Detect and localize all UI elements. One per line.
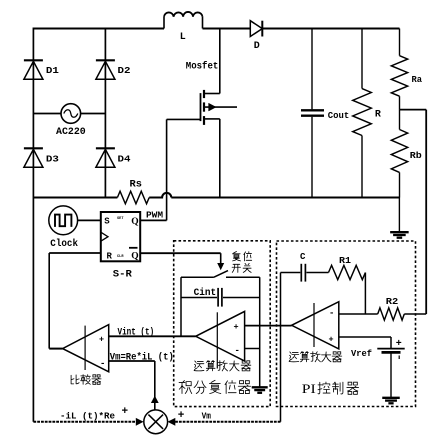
svg-text:+: + bbox=[396, 339, 402, 350]
wire: - input row bbox=[339, 313, 378, 315]
arrow up (multiplier to comparator) bbox=[151, 396, 159, 403]
label Vref bbox=[351, 348, 372, 359]
svg-text:Rs: Rs bbox=[130, 180, 143, 191]
label R1 bbox=[339, 255, 351, 266]
svg-text:D4: D4 bbox=[118, 153, 131, 164]
svg-text:Ra: Ra bbox=[412, 74, 423, 85]
svg-text:PWM: PWM bbox=[146, 210, 163, 221]
svg-text:Cint: Cint bbox=[194, 287, 217, 299]
capacitor C (PI feedback) bbox=[281, 264, 329, 282]
battery Vref bbox=[377, 339, 404, 359]
svg-text:S-R: S-R bbox=[113, 270, 132, 281]
ground (Vref) bbox=[382, 398, 400, 404]
wire: top rail left segment bbox=[33, 28, 164, 30]
svg-text:AC220: AC220 bbox=[56, 127, 86, 138]
label 积分复位器 bbox=[179, 380, 251, 393]
wire: Vm input bbox=[109, 361, 155, 410]
diode D1 bbox=[24, 60, 43, 79]
label + (right multiplier input) bbox=[178, 410, 185, 422]
ground (integrator) bbox=[252, 387, 268, 393]
dashed box: PI controller PI控制器 bbox=[277, 241, 416, 407]
wire: output ground stub bbox=[398, 198, 400, 232]
svg-text:-: - bbox=[100, 359, 105, 369]
capacitor Cint bbox=[181, 288, 260, 307]
op-amp comparator bbox=[63, 325, 109, 372]
label Vint(t) bbox=[118, 326, 155, 338]
svg-text:Clock: Clock bbox=[50, 238, 78, 250]
op-amp integrator bbox=[196, 311, 245, 368]
wire: feedback left drop (PI output node) bbox=[280, 273, 282, 422]
label -iL(t)*Re bbox=[60, 411, 115, 422]
latch U1 S-R box bbox=[101, 212, 140, 261]
label C bbox=[300, 252, 306, 262]
label comparator (比较器) bbox=[71, 375, 101, 385]
svg-text:Vm: Vm bbox=[202, 411, 212, 422]
svg-text:+: + bbox=[99, 335, 104, 345]
resistor R1 bbox=[329, 265, 366, 279]
svg-text:+: + bbox=[329, 335, 334, 345]
wire: feedback right rail to ground bbox=[259, 277, 261, 387]
reset switch bbox=[181, 271, 260, 278]
wire: left rail (full height) bbox=[32, 28, 34, 422]
svg-text:Mosfet: Mosfet bbox=[186, 61, 219, 73]
resistor Rb bbox=[391, 110, 407, 198]
wire: clock to S input bbox=[78, 219, 101, 221]
clock source bbox=[49, 206, 78, 235]
label 运算放大器 (integrator) bbox=[194, 361, 251, 371]
label D2 bbox=[118, 65, 131, 76]
svg-text:Cout: Cout bbox=[328, 110, 350, 121]
mosfet Q (power switch) bbox=[167, 29, 237, 198]
wire: Q to gate node PWM bbox=[140, 219, 166, 221]
svg-text:Vm=Re*iL (t): Vm=Re*iL (t) bbox=[110, 351, 174, 363]
label 复位 bbox=[232, 252, 251, 261]
svg-text:S: S bbox=[104, 217, 110, 227]
diode D4 bbox=[96, 148, 115, 167]
wire: feedback left rail bbox=[180, 277, 182, 336]
wire: comparator output bbox=[49, 348, 62, 350]
svg-text:R: R bbox=[107, 252, 113, 262]
label Rs bbox=[130, 180, 143, 191]
latch pin R bbox=[107, 252, 113, 262]
svg-text:-: - bbox=[329, 309, 334, 319]
label PWM bbox=[146, 210, 163, 221]
resistor Ra bbox=[391, 29, 407, 110]
resistor R2 bbox=[378, 308, 405, 320]
label + (left multiplier input) bbox=[122, 406, 129, 418]
label Clock bbox=[50, 238, 78, 250]
capacitor Cout bbox=[301, 29, 324, 198]
svg-text:Rb: Rb bbox=[410, 150, 422, 161]
wire: divider tap to feedback bbox=[400, 110, 427, 314]
svg-text:D3: D3 bbox=[46, 153, 59, 164]
svg-text:D1: D1 bbox=[46, 65, 59, 76]
wire: Qbar to reset switch bbox=[140, 253, 224, 270]
latch pin SET (tiny) bbox=[117, 217, 124, 221]
svg-text:R1: R1 bbox=[339, 255, 351, 266]
label 开关 bbox=[232, 263, 251, 272]
label Rb bbox=[410, 150, 422, 161]
wire: Vref to ground bbox=[390, 354, 392, 398]
diode D3 bbox=[24, 148, 43, 167]
wire: integrator - input bbox=[245, 348, 260, 350]
diode D2 bbox=[96, 60, 115, 79]
label Vm bbox=[202, 411, 212, 422]
dashed box: integrator 积分复位器 bbox=[174, 241, 271, 407]
svg-text:-iL (t)*Re: -iL (t)*Re bbox=[60, 411, 115, 422]
label Ra bbox=[412, 74, 423, 85]
wire: top rail mid segment (L to D) bbox=[203, 28, 251, 30]
label PI控制器 bbox=[302, 382, 359, 396]
label D4 bbox=[118, 153, 131, 164]
svg-text:SET: SET bbox=[117, 217, 124, 221]
AC source AC220 bbox=[61, 104, 81, 124]
label Cout bbox=[328, 110, 350, 121]
svg-text:Q: Q bbox=[131, 252, 138, 262]
svg-text:PI: PI bbox=[302, 382, 316, 396]
svg-text:Vref: Vref bbox=[351, 348, 372, 359]
label R2 bbox=[386, 296, 399, 307]
svg-text:D: D bbox=[254, 41, 260, 52]
label Mosfet bbox=[186, 61, 219, 73]
svg-text:Vint (t): Vint (t) bbox=[118, 326, 155, 338]
wire: gate to PWM node bbox=[166, 119, 168, 220]
label S-R bbox=[113, 270, 132, 281]
svg-text:Q: Q bbox=[131, 217, 138, 227]
label Cint bbox=[194, 287, 217, 299]
wire: PI output to integrator + input bbox=[245, 325, 292, 327]
latch pin Q bbox=[131, 217, 138, 227]
svg-text:+: + bbox=[178, 410, 185, 422]
resistor R (load) bbox=[353, 29, 372, 198]
label D1 bbox=[46, 65, 59, 76]
wire: AC row bbox=[33, 113, 105, 115]
label Vm=Re*iL(t) bbox=[110, 351, 174, 363]
svg-text:R2: R2 bbox=[386, 296, 399, 307]
ground (output) bbox=[390, 232, 409, 238]
latch clock triangle bbox=[101, 232, 108, 241]
inductor L bbox=[164, 12, 203, 29]
multiplier (X) bbox=[144, 410, 168, 434]
svg-text:CLR: CLR bbox=[117, 255, 124, 259]
wire: Vm to multiplier bbox=[168, 418, 281, 426]
label R bbox=[375, 110, 381, 121]
label D3 bbox=[46, 153, 59, 164]
svg-text:R: R bbox=[375, 110, 381, 121]
label D bbox=[254, 41, 260, 52]
latch pin CLR (tiny) bbox=[117, 255, 124, 259]
wire: bottom rail (rectifier to output ground) bbox=[33, 193, 399, 198]
wire: current sense to multiplier bbox=[33, 418, 143, 426]
svg-text:-: - bbox=[235, 346, 240, 356]
latch pin Qbar bbox=[129, 248, 139, 262]
wire: top rail right segment (D to Ra) bbox=[263, 28, 400, 30]
op-amp PI bbox=[292, 302, 339, 349]
wire: Vint input bbox=[109, 335, 196, 337]
wire: R1 to - input node bbox=[364, 273, 366, 315]
wire: R2 to divider tap wire bbox=[404, 313, 426, 315]
svg-text:D2: D2 bbox=[118, 65, 131, 76]
wire: R input from comparator bbox=[49, 253, 101, 349]
svg-text:+: + bbox=[234, 322, 239, 332]
resistor Rs bbox=[117, 191, 149, 204]
label L bbox=[180, 32, 186, 43]
svg-text:C: C bbox=[300, 252, 306, 262]
svg-text:+: + bbox=[122, 406, 129, 418]
latch pin S bbox=[104, 217, 110, 227]
diode D bbox=[250, 21, 262, 37]
svg-text:L: L bbox=[180, 32, 186, 43]
wire: + input to Vref bbox=[339, 337, 391, 348]
wire: bridge middle rail bbox=[104, 29, 106, 198]
label 运算放大器 (PI) bbox=[289, 352, 342, 362]
label AC220 bbox=[56, 127, 86, 138]
